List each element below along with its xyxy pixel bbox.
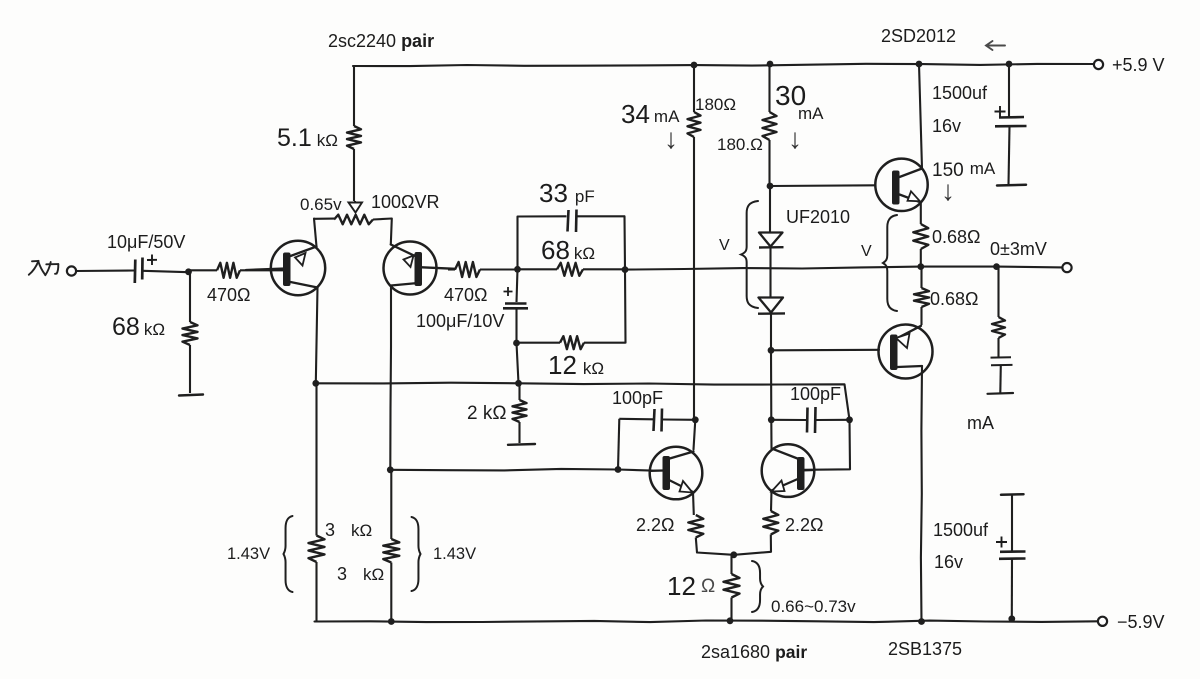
svg-text:100μF/10V: 100μF/10V	[416, 311, 504, 331]
junction: feedback node right (output rail)	[622, 266, 629, 273]
label: 100ΩVR	[371, 192, 440, 212]
label: 3 kΩ (upper left)	[325, 520, 372, 540]
brace: V across UF2010 diodes	[741, 201, 758, 308]
wire: 2SD2012 collector to top rail	[919, 64, 922, 169]
label: 1.43V (right)	[433, 545, 476, 563]
label: V (output bias)	[861, 243, 872, 260]
transistor Q3 2SD2012 (NPN upper output)	[875, 159, 927, 211]
brace: V across 0.68Ω resistors	[883, 215, 897, 311]
junction: bottom rail / 12Ω	[727, 617, 734, 624]
label: 2sa1680 pair	[701, 642, 807, 662]
junction: Q1 emitter / driver rail left	[312, 380, 319, 387]
svg-text:100ΩVR: 100ΩVR	[371, 192, 440, 212]
svg-text:1.43V: 1.43V	[433, 545, 476, 563]
junction: bottom rail / right 3k	[388, 618, 395, 625]
label: arrow pointing left near 2SD2012	[986, 41, 1005, 50]
terminal: input	[67, 266, 76, 275]
junction: left 100pF / collector node	[692, 416, 699, 423]
resistor R-base2 470Ω (feedback side)	[448, 262, 518, 277]
junction: bottom rail / 1500uf branch	[1008, 615, 1015, 622]
label: 68 kΩ (input)	[112, 313, 165, 341]
label: 2.2Ω (left)	[636, 515, 674, 535]
transistor Q2 2sc2240 (right of pair)	[384, 242, 456, 295]
svg-text:0.68Ω: 0.68Ω	[932, 227, 981, 247]
junction: right 100pF / collector node	[768, 416, 775, 423]
svg-text:+5.9 V: +5.9 V	[1112, 55, 1165, 75]
junction: driver rail corner / right 100pF	[846, 416, 853, 423]
label: 10μF/50V	[107, 232, 185, 252]
diode D1 UF2010 (upper)	[759, 233, 784, 248]
wire: driver rail (Q1 emitter to right 100pF drop)	[316, 383, 850, 420]
svg-text:470Ω: 470Ω	[207, 285, 251, 305]
label: 3 kΩ (lower left)	[337, 564, 384, 584]
svg-text:10μF/50V: 10μF/50V	[107, 232, 185, 252]
ground stub: 2k resistor	[508, 443, 535, 446]
label: 2SB1375	[888, 639, 962, 659]
transistor Q4 2SB1375 (PNP lower output)	[879, 325, 933, 379]
svg-text:2SD2012: 2SD2012	[881, 26, 956, 46]
label: 33 pF	[539, 178, 595, 208]
wire: +5.9V top supply rail	[353, 64, 1094, 66]
label: 150 mA	[932, 159, 996, 181]
wire: feedback box right vertical upper	[623, 216, 626, 269]
svg-text:100pF: 100pF	[790, 384, 841, 404]
svg-text:↓: ↓	[788, 123, 802, 154]
svg-text:180Ω: 180Ω	[695, 95, 736, 114]
junction: output rail / Zobel branch	[993, 263, 1000, 270]
svg-text:Ω: Ω	[701, 576, 715, 597]
junction: top rail / 2SD2012 collector	[916, 61, 923, 68]
svg-text:↓: ↓	[941, 175, 955, 206]
svg-text:16v: 16v	[932, 116, 961, 136]
label: 0±3mV	[990, 239, 1047, 259]
label: 0.68Ω (lower)	[930, 289, 979, 309]
resistor R-o1 0.68Ω (upper)	[913, 202, 928, 266]
label: 34 mA	[621, 99, 680, 129]
svg-text:2sa1680 pair: 2sa1680 pair	[701, 642, 807, 662]
junction: 2SB1375 base node	[768, 347, 775, 354]
svg-text:UF2010: UF2010	[786, 207, 850, 227]
terminal: output 0±3mV	[1062, 263, 1071, 272]
transistor Q1 2sc2240 (left of pair)	[246, 241, 325, 295]
wire: 2SD2012 base wire	[770, 184, 876, 187]
wiper arrow of VR 100Ω	[349, 201, 363, 213]
wire: left driver collector up to 100pF node	[694, 420, 696, 450]
label: 470Ω	[207, 285, 251, 305]
svg-text:0±3mV: 0±3mV	[990, 239, 1047, 259]
svg-text:1500uf: 1500uf	[933, 520, 989, 540]
wire: diode node down to right output device collector	[770, 350, 772, 420]
label: down arrow 150mA	[941, 175, 955, 206]
wire: -5.9V bottom supply rail	[315, 621, 1098, 623]
svg-text:mA: mA	[967, 413, 994, 433]
resistor R-d2 2.2Ω (right) with leads	[734, 491, 778, 555]
resistor R-load 5.1kΩ	[347, 66, 361, 201]
junction: emitter rail / 2k node	[515, 380, 522, 387]
svg-text:2.2Ω: 2.2Ω	[636, 515, 674, 535]
svg-text:12: 12	[667, 571, 696, 601]
svg-text:−5.9V: −5.9V	[1117, 612, 1165, 632]
wire: right 100pF node down to right driver base	[804, 420, 850, 470]
resistor R-e2 3kΩ (right)	[383, 470, 399, 622]
wire: 12k node down to emitter rail	[517, 343, 519, 383]
junction: output rail / emitter resistors	[917, 263, 924, 270]
terminal: +5.9V supply	[1094, 60, 1103, 69]
wire: VR right end down to Q2 collector	[391, 219, 392, 245]
label: down arrow 30mA	[788, 123, 802, 154]
svg-text:0.65v: 0.65v	[300, 195, 342, 214]
wire: output rail from feedback node to output terminal	[625, 267, 1063, 270]
label: 100pF (right)	[790, 384, 841, 404]
resistor R-d1 2.2Ω (left) with leads	[688, 492, 733, 555]
resistor R-e1 3kΩ (left)	[309, 383, 325, 621]
junction: top rail / second 180Ω branch	[767, 61, 774, 68]
resistor R-z (Zobel)	[992, 267, 1005, 358]
wire: feedback box right vertical lower	[624, 270, 627, 343]
label: UF2010	[786, 207, 850, 227]
label: 2.2Ω (right)	[785, 515, 823, 535]
svg-text:0.66~0.73v: 0.66~0.73v	[771, 597, 856, 616]
terminal: -5.9V supply	[1098, 617, 1107, 626]
resistor R-fb 68kΩ	[518, 263, 626, 276]
svg-text:1500uf: 1500uf	[932, 83, 988, 103]
capacitor C-dec1 1500uf 16v (top right)	[995, 64, 1027, 186]
diode D2 UF2010 (lower)	[758, 298, 785, 314]
ground stub: input 68k resistor	[179, 395, 203, 396]
label: 16v (bottom)	[934, 552, 963, 572]
label: 100pF (left)	[612, 388, 663, 408]
resistor R-o2 0.68Ω (lower)	[914, 267, 929, 325]
label: −5.9V	[1117, 612, 1165, 632]
wire: diode chain middle segment (crosses output rail)	[769, 248, 771, 298]
svg-text:100pF: 100pF	[612, 388, 663, 408]
label: 5.1 kΩ	[277, 124, 338, 152]
wire: 2SB1375 collector down to bottom rail	[921, 366, 922, 622]
capacitor C-dc 100μF/10V (polarized)	[503, 269, 528, 343]
wire: 2SB1375 base wire	[771, 349, 879, 352]
label: 0.68Ω (upper)	[932, 227, 981, 247]
label: mA (Zobel)	[967, 413, 994, 433]
label: 100μF/10V	[416, 311, 504, 331]
potentiometer VR 100Ω (between collectors)	[315, 215, 392, 225]
label: 470Ω (second)	[444, 285, 488, 305]
wire: diode chain lower segment	[770, 314, 772, 351]
capacitor C-m2 100pF (right)	[771, 407, 849, 433]
junction: 2.2Ω emitter resistors meet	[730, 551, 737, 558]
svg-text:2.2Ω: 2.2Ω	[785, 515, 823, 535]
label: 12 kΩ (feedback)	[548, 350, 604, 380]
svg-text:↓: ↓	[664, 123, 678, 154]
wire: right driver collector up to collector node	[770, 420, 772, 449]
svg-text:16v: 16v	[934, 552, 963, 572]
capacitor C-fb 33pF with top branch wires	[518, 210, 625, 233]
capacitor C-in 10uF/50V (polarized)	[135, 255, 157, 284]
junction: Q2 emitter / base-drive rail	[387, 466, 394, 473]
resistor R-s 12Ω (sense)	[724, 555, 740, 621]
label: 1500uf (top)	[932, 83, 988, 103]
svg-text:0.68Ω: 0.68Ω	[930, 289, 979, 309]
svg-text:mA: mA	[798, 104, 824, 123]
label: V (diode bias)	[719, 237, 730, 254]
junction: top rail / first 180Ω branch	[691, 62, 698, 69]
wire: base-drive rail (Q2 emitter to left 2sa1680 base)	[390, 469, 652, 471]
svg-text:2sc2240 pair: 2sc2240 pair	[328, 31, 434, 51]
brace: left 1.43V	[284, 516, 293, 592]
wire: feedback box left vertical (33pF to node)	[516, 217, 518, 270]
resistor R-in 68kΩ to ground stub	[183, 272, 198, 393]
label: mA of 30	[798, 104, 824, 123]
label: 68 kΩ (feedback)	[541, 235, 595, 265]
label: 0.65v	[300, 195, 342, 214]
svg-text:180.Ω: 180.Ω	[717, 135, 763, 154]
capacitor C-dec2 1500uf 16v (bottom right)	[996, 494, 1026, 619]
wire: Q1 emitter down to left driver rail	[316, 288, 318, 384]
resistor R-base1 470Ω	[189, 263, 284, 278]
junction: feedback node at Q2 base network	[514, 266, 521, 273]
resistor R-tail 2kΩ to ground stub	[513, 383, 527, 443]
svg-text:1.43V: 1.43V	[227, 545, 270, 563]
label: 2SD2012	[881, 26, 956, 46]
junction: 12k branch node below 100uF	[513, 340, 520, 347]
wire: diode chain upper segment	[769, 186, 771, 232]
svg-text:V: V	[719, 237, 730, 254]
brace: right 1.43V	[412, 517, 421, 591]
capacitor C-z (Zobel) with ground stub	[988, 357, 1014, 394]
resistor R-c1 180Ω (first)	[688, 65, 701, 420]
label: Ω of 12Ω	[701, 576, 715, 597]
capacitor C-m1 100pF (left)	[618, 409, 695, 470]
wire: Q2 emitter down to base-drive rail	[389, 286, 392, 470]
junction: base-drive rail / left 100pF	[615, 466, 622, 473]
svg-text:470Ω: 470Ω	[444, 285, 488, 305]
svg-text:V: V	[861, 243, 872, 260]
junction: bottom rail / 2SB1375 collector	[918, 618, 925, 625]
resistor R-c2 180Ω (second)	[763, 64, 777, 186]
wire: input terminal to coupling capacitor	[76, 269, 134, 272]
junction: input node	[185, 268, 192, 275]
transistor Q6 2sa1680 (right driver)	[762, 444, 815, 497]
label: +5.9 V	[1112, 55, 1165, 75]
label: 1500uf (bottom)	[933, 520, 989, 540]
label: 12 Ω (sense)	[667, 571, 696, 601]
label: 30 mA	[775, 80, 806, 111]
junction: top rail / 1500uf branch	[1006, 61, 1013, 68]
label: down arrow 34mA	[664, 123, 678, 154]
svg-text:2 kΩ: 2 kΩ	[467, 403, 507, 424]
wire: capacitor to input node	[143, 271, 189, 272]
junction: diode chain top / 2SD2012 base	[767, 183, 774, 190]
label: 180Ω (second)	[717, 135, 763, 154]
transistor Q5 2sa1680 (left driver)	[650, 447, 703, 500]
resistor R-fb2 12kΩ	[517, 336, 626, 349]
label: 2sc2240 pair	[328, 31, 434, 51]
label: input 入力 (drawn kanji)	[29, 261, 59, 275]
label: 0.66~0.73v	[771, 597, 856, 616]
label: 2 kΩ	[467, 403, 507, 424]
brace: 0.66~0.73v across 12Ω	[752, 561, 763, 612]
label: 16v (top)	[932, 116, 961, 136]
svg-text:2SB1375: 2SB1375	[888, 639, 962, 659]
label: 180Ω (first)	[695, 95, 736, 114]
wire: Q1 collector up to VR left end	[314, 219, 317, 247]
label: 1.43V (left)	[227, 545, 270, 563]
